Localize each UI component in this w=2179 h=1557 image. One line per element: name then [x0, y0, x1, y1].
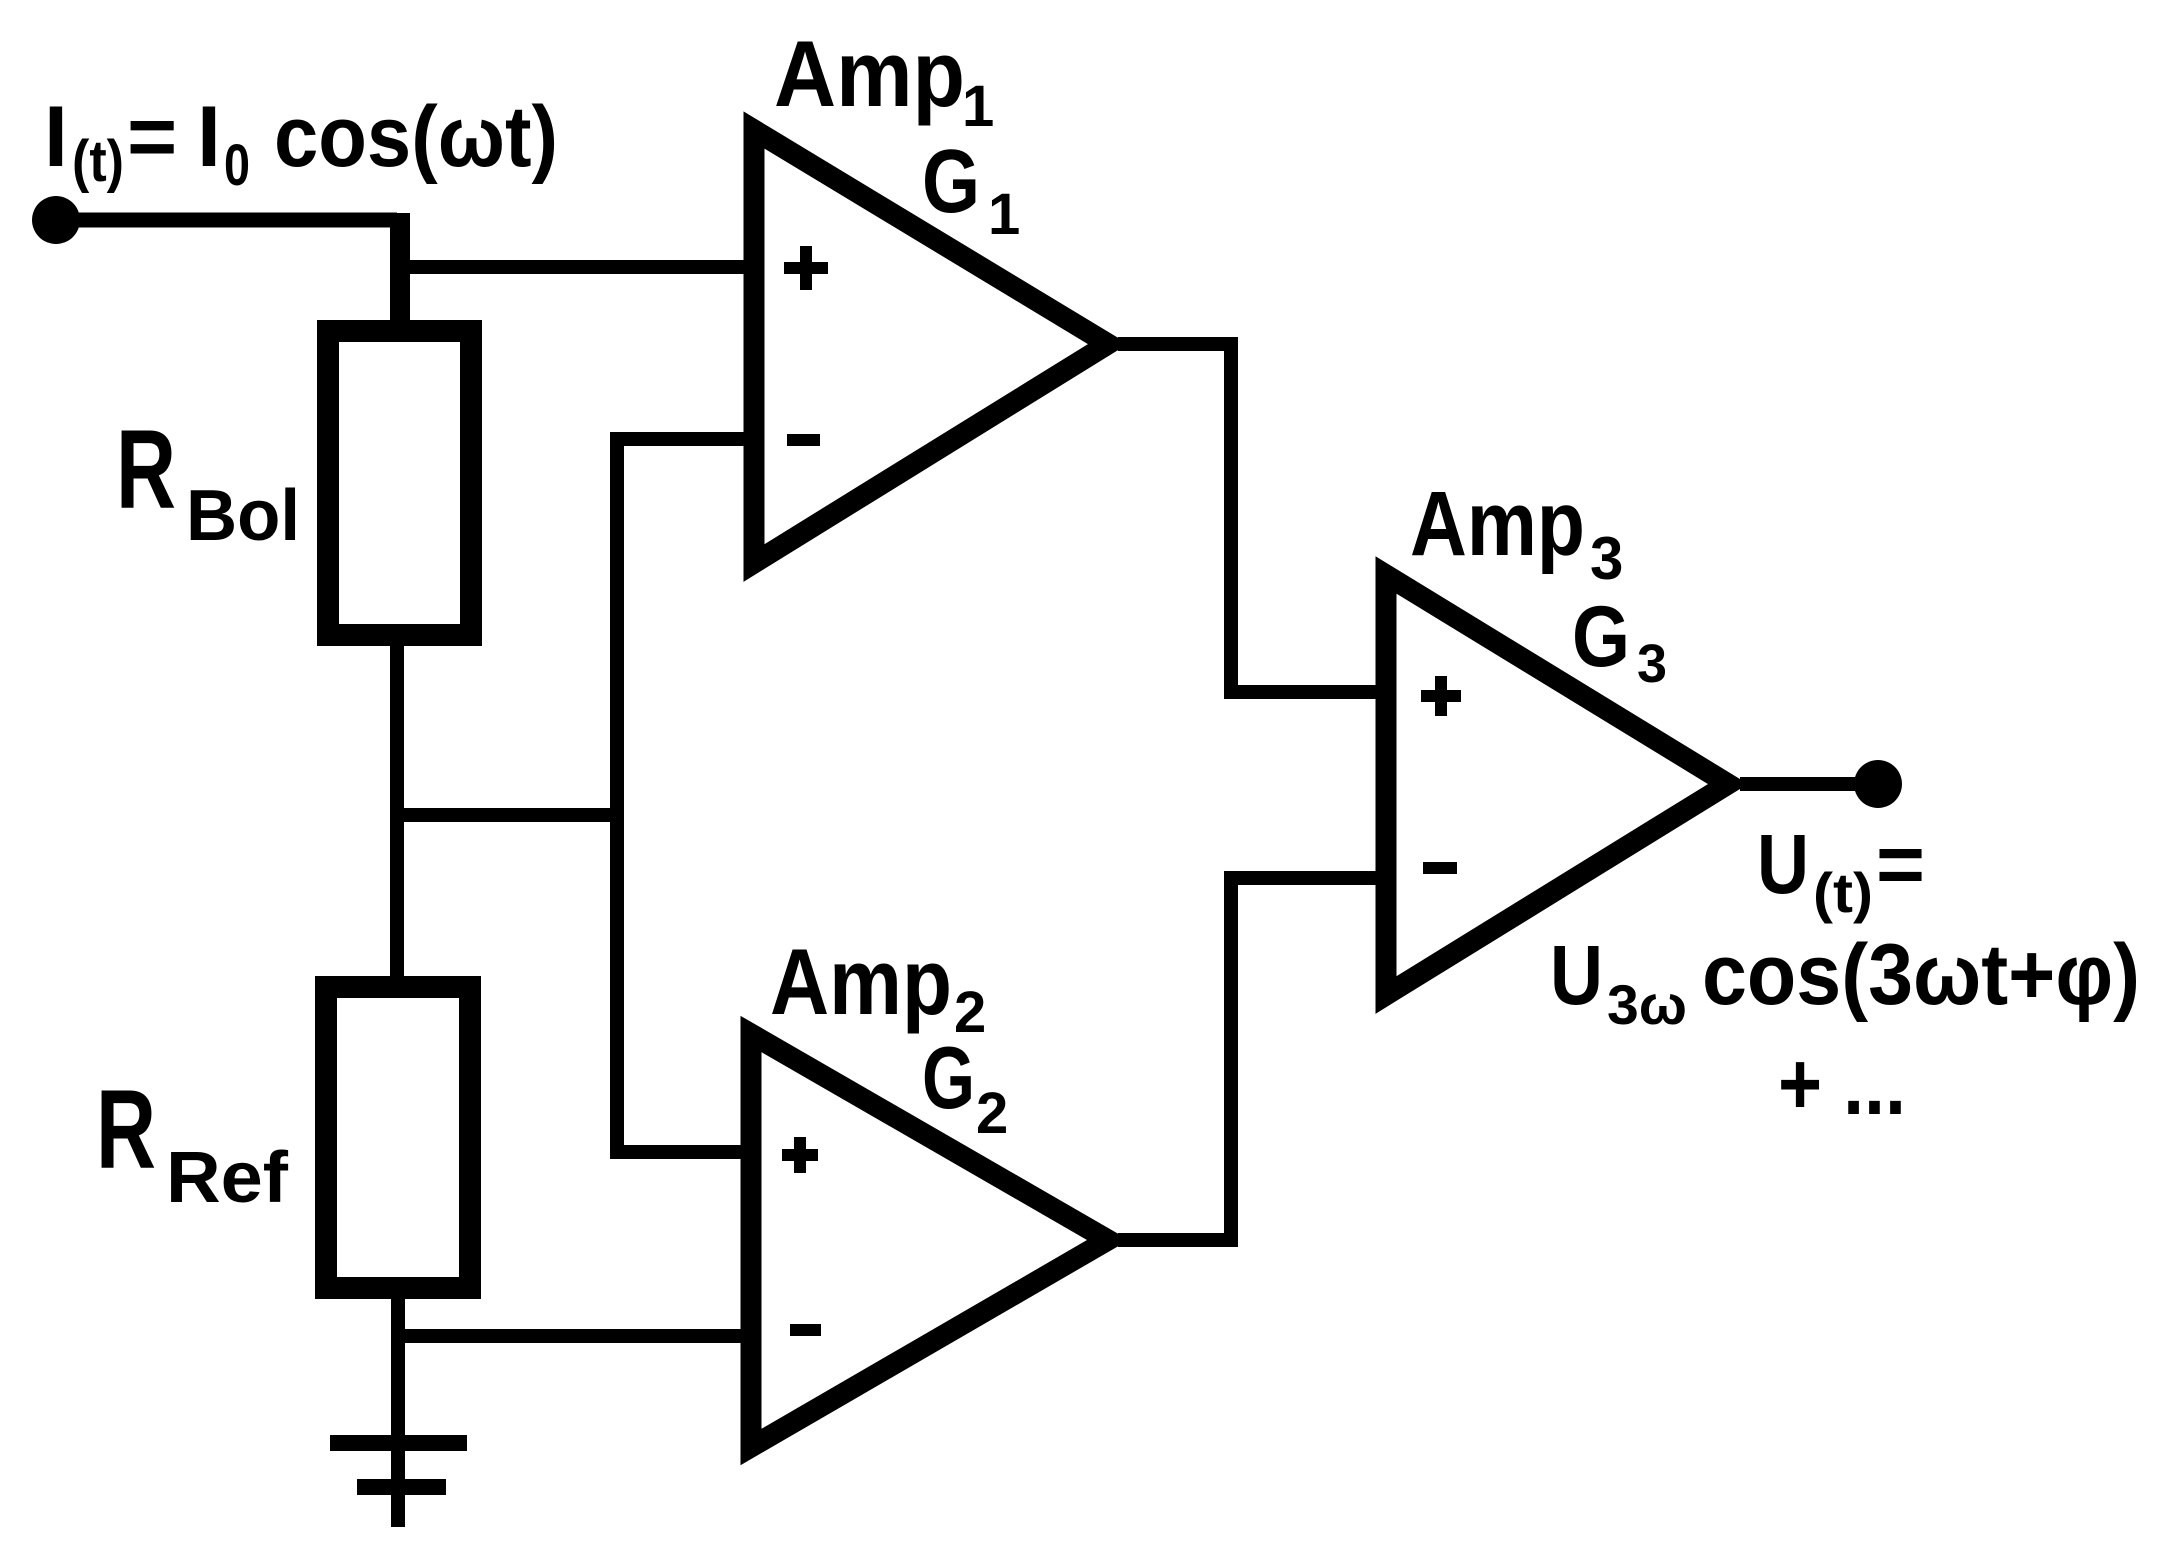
op-amp U1 minus input mark [787, 434, 820, 446]
svg-text:1: 1 [988, 182, 1020, 247]
svg-text:Bol: Bol [186, 476, 300, 556]
svg-text:2: 2 [976, 1081, 1008, 1146]
svg-text:(t): (t) [1813, 861, 1873, 924]
op-amp U2 minus input mark [790, 1324, 821, 1336]
resistor RBol [328, 331, 471, 635]
svg-text:3: 3 [1590, 525, 1623, 592]
svg-text:3: 3 [1637, 634, 1667, 694]
op-amp U3 plus input mark [1421, 676, 1461, 716]
wire: vertical branch line with Amp1 - and Amp2 + taps [617, 439, 748, 1152]
svg-text:I: I [197, 89, 221, 185]
node: input terminal dot [32, 196, 80, 244]
op-amp U1 (Amp1) [754, 130, 1108, 563]
svg-text:=: = [127, 89, 177, 185]
label RRef [96, 1067, 289, 1218]
wire: RRef bottom down to ground [391, 1288, 405, 1527]
svg-text:G: G [1572, 589, 1630, 685]
label G2 [922, 1028, 1008, 1146]
op-amp U3 minus input mark [1423, 862, 1457, 874]
op-amp U1 plus input mark [784, 246, 828, 290]
label Amp3 [1410, 473, 1623, 592]
wire: vertical lead down into RBol top [390, 213, 410, 331]
svg-text:G: G [922, 132, 980, 232]
wire: input node to bend above RBol [56, 213, 397, 228]
svg-text:Amp: Amp [774, 21, 965, 126]
label Amp2 [770, 929, 986, 1045]
label G1 [922, 132, 1020, 247]
wire: bottom junction to Amp2 - input [391, 1329, 745, 1343]
resistor RRef [326, 987, 470, 1288]
op-amp U2 plus input mark [782, 1137, 818, 1173]
svg-text:=: = [1876, 817, 1925, 911]
op-amp U2 (Amp2) [751, 1034, 1108, 1447]
node: output terminal dot [1854, 760, 1902, 808]
svg-text:I: I [44, 89, 68, 185]
svg-text:Amp: Amp [770, 929, 952, 1034]
op-amp U3 (Amp3) [1386, 575, 1728, 995]
svg-text:Amp: Amp [1410, 473, 1585, 575]
label U(t)= [1757, 817, 1925, 924]
label Amp1 [774, 21, 994, 139]
svg-text:U: U [1550, 928, 1603, 1022]
svg-text:+ ...: + ... [1778, 1034, 1906, 1133]
svg-text:cos(ωt): cos(ωt) [274, 89, 558, 185]
svg-text:U: U [1757, 817, 1809, 911]
svg-text:G: G [922, 1028, 975, 1127]
label U3w cos(3wt+phi) [1550, 927, 2140, 1036]
svg-text:R: R [116, 407, 176, 532]
wire: middle junction horizontal [390, 808, 617, 822]
wire: RBol bottom to RRef top [390, 646, 404, 977]
svg-text:(t): (t) [72, 129, 124, 194]
label G3 [1572, 589, 1667, 694]
svg-text:3ω: 3ω [1607, 973, 1687, 1036]
ground symbol [330, 1443, 467, 1487]
wire: Amp1 output to Amp3 + input [1118, 344, 1380, 692]
wire: branch to Amp1 + input [391, 260, 748, 274]
label I(t)= I0 cos(wt) [44, 89, 558, 198]
wire: Amp3 output [1740, 777, 1878, 791]
svg-text:cos(3ωt+φ): cos(3ωt+φ) [1702, 927, 2140, 1023]
wire: Amp2 output to Amp3 - input [1118, 878, 1380, 1240]
label RBol [116, 407, 300, 556]
svg-text:Ref: Ref [166, 1138, 289, 1218]
svg-text:1: 1 [962, 74, 994, 139]
svg-text:R: R [96, 1067, 156, 1192]
svg-text:0: 0 [224, 133, 250, 198]
